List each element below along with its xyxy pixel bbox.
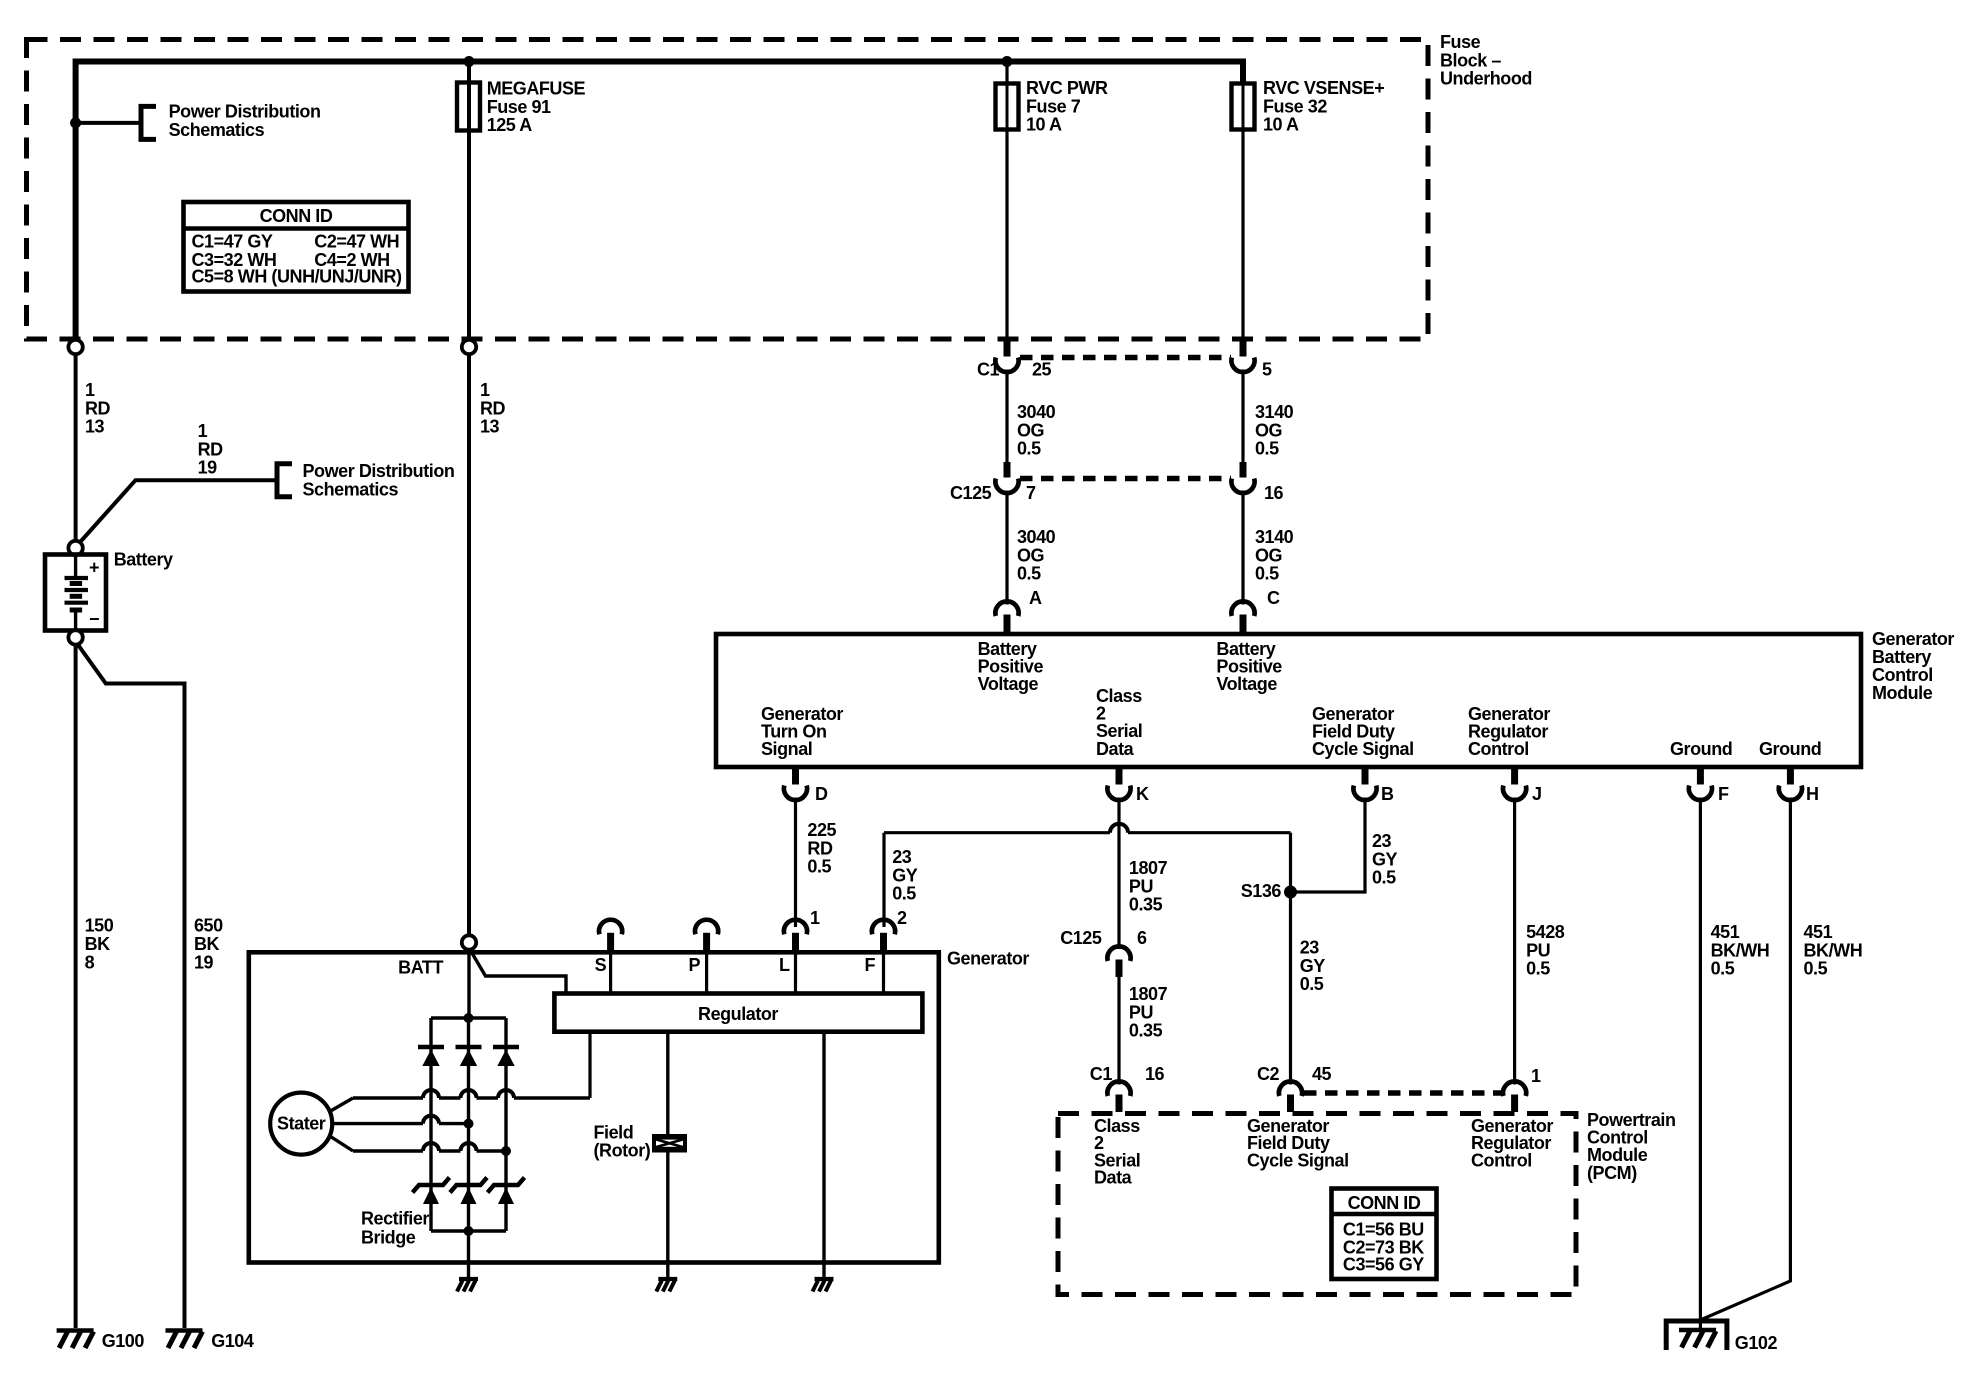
svg-text:0.5: 0.5 xyxy=(807,857,831,877)
svg-text:13: 13 xyxy=(85,417,105,437)
connector PCM C1 pin 16 xyxy=(1116,1095,1123,1113)
svg-text:Fuse 7: Fuse 7 xyxy=(1026,96,1081,116)
fuse RVC PWR Fuse 7 10A xyxy=(1005,62,1008,341)
svg-text:−: − xyxy=(89,609,99,629)
svg-text:0.5: 0.5 xyxy=(1804,959,1828,979)
wire 650 BK 19 branch xyxy=(78,645,185,1329)
svg-text:Block –: Block – xyxy=(1440,50,1501,70)
wire regulator to field rotor xyxy=(666,1032,669,1263)
svg-text:(Rotor): (Rotor) xyxy=(594,1141,651,1161)
svg-text:Schematics: Schematics xyxy=(303,479,399,499)
wire to ground (regulator) xyxy=(822,1263,825,1280)
svg-text:Rectifier: Rectifier xyxy=(361,1209,429,1229)
ground G102 symbol xyxy=(1679,1328,1716,1333)
svg-text:19: 19 xyxy=(194,952,214,972)
svg-text:13: 13 xyxy=(480,417,500,437)
svg-text:Ground: Ground xyxy=(1670,739,1732,759)
wire pin L to regulator xyxy=(794,952,797,994)
svg-text:RD: RD xyxy=(198,439,224,459)
connector GBCM pin B xyxy=(1362,769,1369,785)
svg-text:3140: 3140 xyxy=(1255,527,1294,547)
wire branch 1 RD 19 to power distribution xyxy=(78,480,278,545)
ground G104 xyxy=(166,1328,203,1333)
connector C1 pin 5 (fuse block side) xyxy=(1240,341,1247,357)
connector PCM pin 1 xyxy=(1511,1095,1518,1113)
svg-text:OG: OG xyxy=(1017,545,1044,565)
svg-text:0.5: 0.5 xyxy=(1255,564,1279,584)
CONN ID table (PCM) xyxy=(1332,1189,1437,1280)
connector GBCM pin D xyxy=(792,769,799,785)
svg-text:C125: C125 xyxy=(950,483,992,503)
svg-text:1807: 1807 xyxy=(1129,984,1168,1004)
svg-text:451: 451 xyxy=(1711,922,1740,942)
connector C1 pin 25 (fuse block side) xyxy=(1004,341,1011,357)
svg-text:BK/WH: BK/WH xyxy=(1804,940,1863,960)
wire 23 GY 0.5 down to generator pin F xyxy=(882,833,885,927)
svg-text:Fuse 91: Fuse 91 xyxy=(487,97,551,117)
rectifier bridge bottom rail xyxy=(431,1229,506,1232)
field (rotor) symbol xyxy=(652,1134,687,1153)
svg-text:0.35: 0.35 xyxy=(1129,1021,1163,1041)
connector pin C into GBCM xyxy=(1240,615,1247,633)
svg-text:Fuse: Fuse xyxy=(1440,32,1481,52)
svg-text:0.5: 0.5 xyxy=(1300,974,1324,994)
svg-text:16: 16 xyxy=(1145,1064,1165,1084)
svg-text:0.5: 0.5 xyxy=(1017,439,1041,459)
svg-text:F: F xyxy=(865,955,876,975)
dotted connector row C1 xyxy=(1020,355,1231,361)
junction bridge top rail xyxy=(464,1013,474,1023)
svg-text:0.5: 0.5 xyxy=(1017,564,1041,584)
zener diode bridge middle bottom xyxy=(450,1178,487,1193)
zener diode bridge left bottom xyxy=(413,1178,450,1193)
svg-text:45: 45 xyxy=(1312,1064,1332,1084)
svg-text:C2=47 WH: C2=47 WH xyxy=(314,232,399,252)
svg-text:C1=56 BU: C1=56 BU xyxy=(1343,1220,1424,1240)
stator circle xyxy=(270,1093,332,1155)
wire 3040 OG 0.5 lower xyxy=(1005,491,1008,605)
svg-text:0.5: 0.5 xyxy=(1255,439,1279,459)
connector C125 pin 7 xyxy=(1004,462,1011,478)
wire 451 BK/WH 0.5 (H) xyxy=(1702,798,1791,1320)
svg-text:L: L xyxy=(779,955,790,975)
svg-text:5: 5 xyxy=(1262,360,1272,380)
Powertrain Control Module dashed box xyxy=(1058,1114,1576,1295)
svg-text:F: F xyxy=(1718,784,1729,804)
wire main battery positive bus xyxy=(76,62,1243,353)
connector pin A into GBCM xyxy=(1004,615,1011,633)
svg-text:Regulator: Regulator xyxy=(698,1004,778,1024)
svg-text:16: 16 xyxy=(1264,483,1284,503)
svg-text:+: + xyxy=(89,558,99,578)
svg-text:C1: C1 xyxy=(977,360,1000,380)
wire 23 GY 0.5 to PCM C2-45 xyxy=(1289,892,1292,1085)
wire to ground (bridge) xyxy=(467,1263,470,1280)
svg-text:Battery: Battery xyxy=(1872,647,1931,667)
svg-text:3040: 3040 xyxy=(1017,402,1056,422)
CONN ID table (fuse block) xyxy=(184,202,409,292)
svg-text:D: D xyxy=(815,784,828,804)
connector C125 pin 16 xyxy=(1240,462,1247,478)
svg-text:PU: PU xyxy=(1129,876,1153,896)
svg-text:5428: 5428 xyxy=(1526,922,1565,942)
svg-text:Control: Control xyxy=(1468,739,1529,759)
svg-text:OG: OG xyxy=(1255,545,1282,565)
bridge right leg xyxy=(504,1018,507,1231)
wire regulator to ground (right) xyxy=(822,1032,825,1263)
svg-text:Generator: Generator xyxy=(947,949,1029,969)
wire BATT into rectifier bridge xyxy=(467,949,470,1019)
svg-text:0.5: 0.5 xyxy=(1526,959,1550,979)
svg-text:150: 150 xyxy=(85,916,114,936)
junction node power distribution tap xyxy=(70,117,81,128)
svg-text:C: C xyxy=(1267,588,1280,608)
svg-text:J: J xyxy=(1532,784,1542,804)
svg-text:G102: G102 xyxy=(1735,1333,1778,1353)
svg-text:H: H xyxy=(1806,784,1819,804)
fuse MEGAFUSE Fuse 91 125A xyxy=(467,62,471,348)
wire pin F to regulator xyxy=(882,952,885,994)
svg-text:Module: Module xyxy=(1872,683,1933,703)
svg-text:Field: Field xyxy=(594,1122,634,1142)
connector GBCM pin F xyxy=(1697,769,1704,785)
svg-text:BATT: BATT xyxy=(398,958,443,978)
wire bridge to generator case xyxy=(467,1231,470,1263)
wire 5428 PU 0.5 xyxy=(1513,798,1516,1085)
svg-text:GY: GY xyxy=(1300,956,1326,976)
svg-text:B: B xyxy=(1381,784,1394,804)
wire 451 BK/WH 0.5 (F) xyxy=(1699,798,1702,1331)
connector C125 pin 6 xyxy=(1116,960,1123,978)
splice S136 xyxy=(1284,886,1297,899)
svg-text:3040: 3040 xyxy=(1017,527,1056,547)
wire 3140 OG 0.5 upper xyxy=(1241,370,1244,463)
svg-text:225: 225 xyxy=(807,820,836,840)
svg-text:23: 23 xyxy=(1300,938,1320,958)
svg-text:Generator: Generator xyxy=(1872,629,1954,649)
svg-text:S136: S136 xyxy=(1241,881,1282,901)
svg-text:1: 1 xyxy=(480,380,490,400)
svg-text:6: 6 xyxy=(1137,928,1147,948)
junction middle phase xyxy=(464,1119,474,1129)
battery negative terminal ring xyxy=(68,630,82,644)
connector generator pin F xyxy=(880,933,887,951)
svg-text:G100: G100 xyxy=(102,1331,145,1351)
fuse block - underhood dashed box xyxy=(27,40,1429,340)
svg-text:GY: GY xyxy=(892,865,918,885)
wire 1807 PU 0.35 upper xyxy=(1117,798,1120,950)
svg-text:Cycle Signal: Cycle Signal xyxy=(1312,739,1414,759)
svg-text:Control: Control xyxy=(1471,1150,1532,1170)
svg-text:K: K xyxy=(1136,784,1149,804)
connector generator pin P xyxy=(703,933,710,951)
dotted connector row C125 xyxy=(1020,476,1231,482)
svg-text:Fuse 32: Fuse 32 xyxy=(1263,96,1327,116)
svg-text:PU: PU xyxy=(1526,940,1550,960)
svg-text:Bridge: Bridge xyxy=(361,1227,416,1247)
connector GBCM pin H xyxy=(1787,769,1794,785)
connector GBCM pin J xyxy=(1511,769,1518,785)
svg-text:0.5: 0.5 xyxy=(1711,959,1735,979)
fuse RVC VSENSE+ Fuse 32 10A xyxy=(1241,62,1244,341)
svg-text:10 A: 10 A xyxy=(1263,115,1299,135)
svg-text:C2: C2 xyxy=(1257,1064,1280,1084)
svg-text:GY: GY xyxy=(1372,849,1398,869)
svg-text:23: 23 xyxy=(1372,831,1392,851)
svg-text:A: A xyxy=(1029,588,1042,608)
svg-text:Voltage: Voltage xyxy=(978,674,1039,694)
svg-text:RVC PWR: RVC PWR xyxy=(1026,78,1108,98)
wire regulator to stator phase xyxy=(588,1032,591,1098)
svg-text:25: 25 xyxy=(1032,360,1052,380)
wire 3140 OG 0.5 lower xyxy=(1241,491,1244,605)
svg-text:7: 7 xyxy=(1026,483,1036,503)
svg-text:1: 1 xyxy=(198,421,208,441)
dotted connector row C2 to pin 1 xyxy=(1304,1090,1502,1096)
svg-text:Data: Data xyxy=(1096,739,1135,759)
svg-text:1: 1 xyxy=(85,380,95,400)
connector generator pin L xyxy=(792,933,799,951)
wire 3040 OG 0.5 upper xyxy=(1005,370,1008,463)
Generator Battery Control Module box xyxy=(716,634,1861,767)
svg-text:C1: C1 xyxy=(1090,1064,1113,1084)
ground G100 xyxy=(57,1328,94,1333)
svg-text:RD: RD xyxy=(807,838,833,858)
svg-text:451: 451 xyxy=(1804,922,1833,942)
wire pin P to regulator xyxy=(705,952,708,994)
svg-text:Voltage: Voltage xyxy=(1216,674,1277,694)
junction bottom phase xyxy=(501,1146,511,1156)
diode bridge left top xyxy=(418,1045,444,1050)
svg-text:Underhood: Underhood xyxy=(1440,69,1532,89)
ground below regulator xyxy=(815,1277,834,1281)
ground below rectifier bridge xyxy=(459,1277,478,1281)
svg-text:CONN ID: CONN ID xyxy=(260,206,333,226)
wire to ground (field) xyxy=(666,1263,669,1280)
battery positive terminal ring xyxy=(68,541,82,555)
svg-text:Data: Data xyxy=(1094,1168,1133,1188)
svg-text:8: 8 xyxy=(85,952,95,972)
wire megafuse feed to generator BATT xyxy=(467,353,471,936)
wire 150 BK 8 to G100 xyxy=(74,644,78,1328)
svg-text:G104: G104 xyxy=(211,1331,254,1351)
ground below field xyxy=(658,1277,677,1281)
Regulator box xyxy=(554,994,922,1032)
svg-text:CONN ID: CONN ID xyxy=(1348,1193,1421,1213)
svg-text:2: 2 xyxy=(897,908,907,928)
connector GBCM pin K xyxy=(1116,769,1123,785)
svg-text:RVC VSENSE+: RVC VSENSE+ xyxy=(1263,78,1384,98)
svg-text:P: P xyxy=(689,955,701,975)
battery cell plates xyxy=(74,555,77,579)
diode bridge right top xyxy=(493,1045,519,1050)
svg-text:OG: OG xyxy=(1017,420,1044,440)
svg-text:(PCM): (PCM) xyxy=(1587,1163,1637,1183)
svg-text:OG: OG xyxy=(1255,420,1282,440)
wire pin S to regulator xyxy=(609,952,612,994)
wire 23 GY 0.5 horizontal from B branch to generator F xyxy=(884,831,1110,834)
svg-text:C1=47 GY: C1=47 GY xyxy=(192,232,273,252)
generator BATT terminal ring xyxy=(462,935,476,949)
svg-text:Schematics: Schematics xyxy=(169,120,265,140)
wire battery positive feed xyxy=(74,353,78,542)
wire to power distribution schematics (top) xyxy=(76,121,141,125)
wire 23 GY down to S136 xyxy=(1289,833,1292,892)
svg-text:10 A: 10 A xyxy=(1026,115,1062,135)
stator phase wire top xyxy=(331,1098,354,1111)
svg-text:C3=56 GY: C3=56 GY xyxy=(1343,1255,1424,1275)
svg-text:Stater: Stater xyxy=(277,1114,326,1134)
svg-text:Battery: Battery xyxy=(114,550,173,570)
off-page bracket power distribution 1 xyxy=(141,106,156,139)
stator phase wire bottom xyxy=(331,1137,354,1152)
wire 1807 PU 0.35 lower xyxy=(1117,977,1120,1085)
svg-text:125 A: 125 A xyxy=(487,115,533,135)
svg-text:Ground: Ground xyxy=(1759,739,1821,759)
svg-text:Cycle Signal: Cycle Signal xyxy=(1247,1150,1349,1170)
zener diode bridge right bottom xyxy=(488,1178,525,1193)
junction on bus at megafuse xyxy=(464,56,475,67)
svg-text:BK: BK xyxy=(85,934,111,954)
bridge middle leg xyxy=(467,1018,470,1231)
wire BATT to regulator xyxy=(471,951,567,994)
svg-text:BK/WH: BK/WH xyxy=(1711,940,1770,960)
junction bridge bottom rail xyxy=(464,1226,474,1236)
svg-text:650: 650 xyxy=(194,916,223,936)
svg-text:BK: BK xyxy=(194,934,220,954)
svg-text:RD: RD xyxy=(480,398,506,418)
svg-text:PU: PU xyxy=(1129,1002,1153,1022)
connector ring left wire at fuse block exit xyxy=(68,340,82,354)
ground G102 box xyxy=(1666,1321,1727,1350)
wire 23 GY 0.5 from pin B xyxy=(1291,798,1366,893)
rectifier bridge top rail xyxy=(431,1016,506,1019)
svg-text:C125: C125 xyxy=(1060,928,1102,948)
connector generator pin S xyxy=(607,933,614,951)
off-page bracket power distribution 2 xyxy=(277,464,292,497)
svg-text:Control: Control xyxy=(1872,665,1933,685)
diode bridge middle top xyxy=(456,1045,482,1050)
svg-text:S: S xyxy=(595,955,607,975)
svg-text:1807: 1807 xyxy=(1129,858,1168,878)
svg-text:Power Distribution: Power Distribution xyxy=(169,102,321,122)
svg-text:1: 1 xyxy=(810,908,820,928)
svg-text:1: 1 xyxy=(1531,1066,1541,1086)
svg-text:C5=8 WH (UNH/UNJ/UNR): C5=8 WH (UNH/UNJ/UNR) xyxy=(192,267,403,287)
svg-text:Signal: Signal xyxy=(761,739,812,759)
bridge left leg xyxy=(429,1018,432,1231)
svg-text:0.35: 0.35 xyxy=(1129,895,1163,915)
junction on bus at RVC PWR fuse xyxy=(1002,56,1013,67)
wire 225 RD 0.5 xyxy=(794,798,797,928)
stator phase wire middle xyxy=(332,1122,423,1125)
svg-text:0.5: 0.5 xyxy=(892,884,916,904)
battery symbol box xyxy=(45,555,106,631)
svg-text:Power Distribution: Power Distribution xyxy=(303,461,455,481)
connector PCM C2 pin 45 xyxy=(1287,1095,1294,1113)
svg-text:RD: RD xyxy=(85,398,111,418)
svg-text:23: 23 xyxy=(892,847,912,867)
svg-text:0.5: 0.5 xyxy=(1372,868,1396,888)
Generator box xyxy=(249,952,939,1262)
svg-text:MEGAFUSE: MEGAFUSE xyxy=(487,79,586,99)
svg-text:3140: 3140 xyxy=(1255,402,1294,422)
svg-text:19: 19 xyxy=(198,458,218,478)
connector ring megafuse wire at fuse block exit xyxy=(462,340,476,354)
